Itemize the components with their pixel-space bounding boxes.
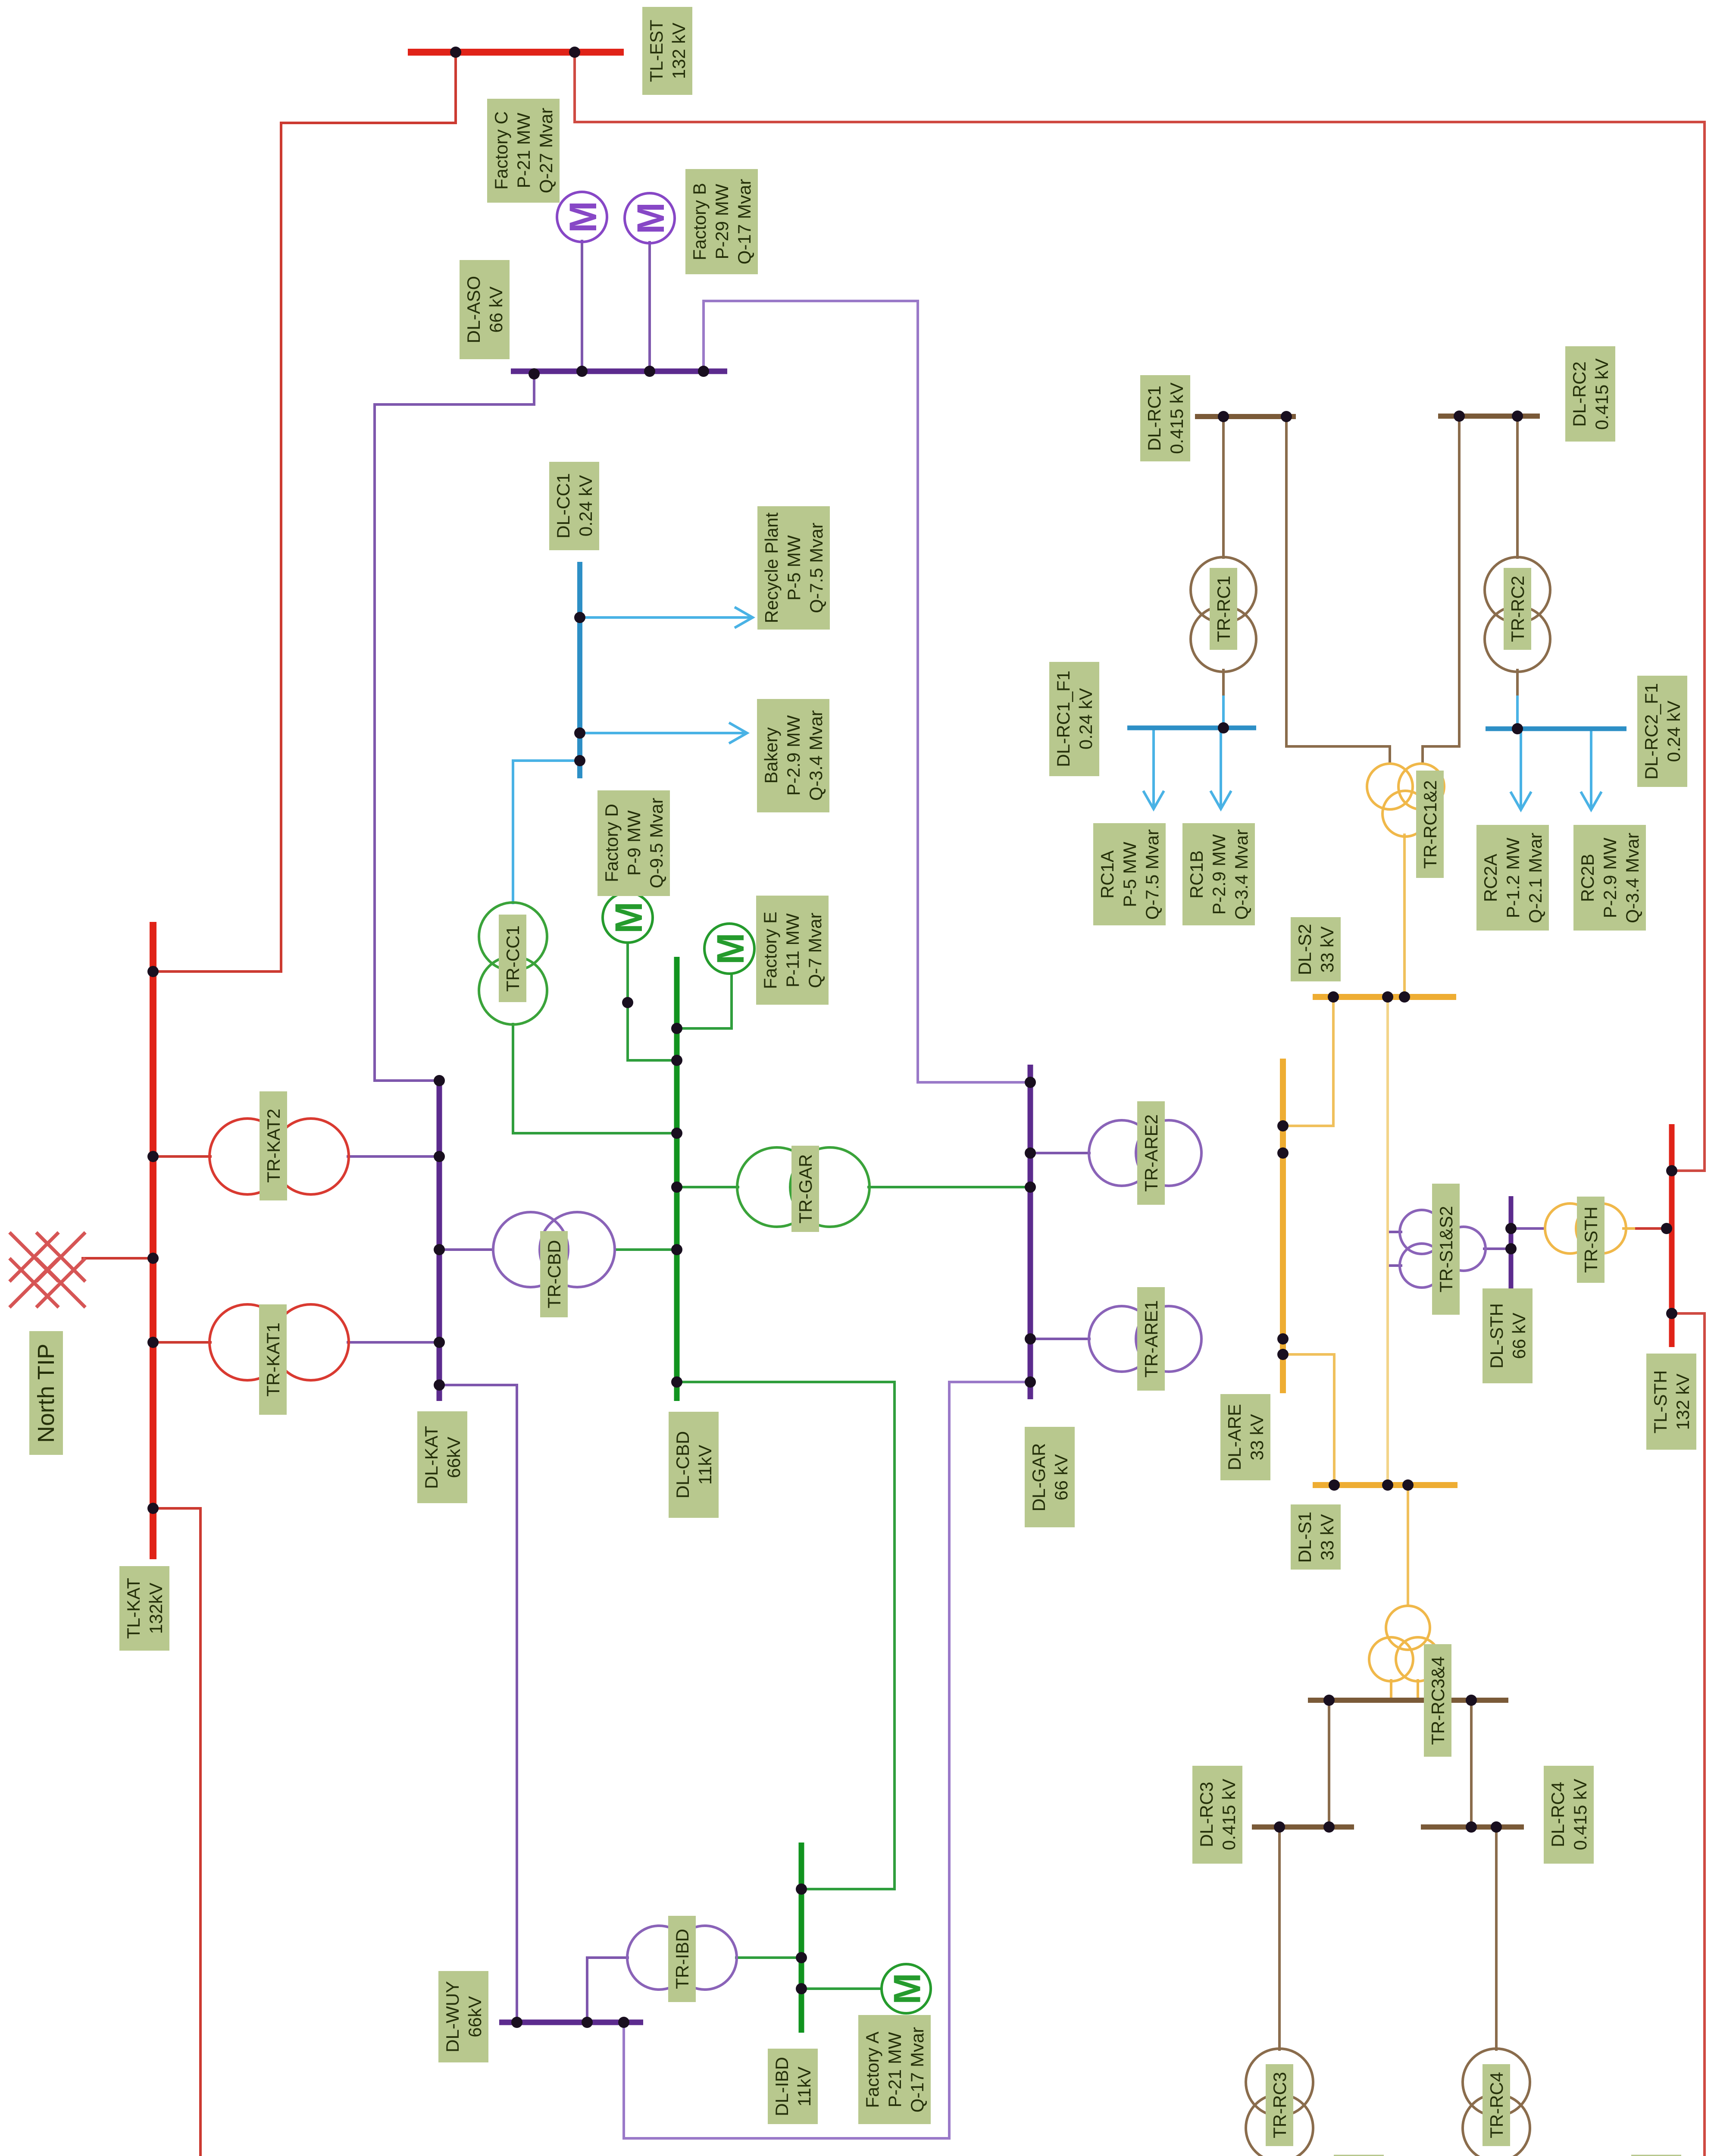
transformer TR-ARE2 — [1089, 1120, 1201, 1186]
label RC1A — [1093, 823, 1166, 925]
wire TR-STH circles stub — [1623, 1227, 1634, 1230]
wire motor Factory B stem — [648, 242, 651, 371]
transformer TR-GAR — [737, 1147, 870, 1227]
label DL-CBD — [669, 1412, 719, 1518]
label DL-RC3_F1 — [1334, 2155, 1384, 2156]
motor Factory C — [557, 192, 607, 242]
svg-text:TR-RC1&2: TR-RC1&2 — [1420, 780, 1440, 868]
wire TR-RC2 LV stub — [1516, 672, 1519, 729]
svg-text:TR-IBD: TR-IBD — [672, 1929, 692, 1989]
svg-text:M: M — [629, 202, 672, 234]
wire TR-KAT2 HV stub — [153, 1155, 210, 1158]
svg-text:TR-RC3&4: TR-RC3&4 — [1428, 1656, 1448, 1745]
wire TR-RC1 LV brown stub — [1222, 670, 1225, 694]
transformer TR-CBD — [493, 1212, 615, 1287]
transformer TR-IBD — [627, 1926, 737, 1990]
wire TR-GAR stub DL-CBD side — [677, 1186, 738, 1188]
svg-text:M: M — [607, 902, 650, 934]
wire TR-RC1 HV stub — [1222, 417, 1225, 558]
junction dots TL-KAT — [147, 966, 159, 1514]
wire TR-RC3&4 to RC4 feeder — [1470, 1700, 1473, 1827]
external grid North TIP — [9, 1232, 85, 1307]
wire motor Factory D stem — [628, 943, 677, 1060]
bus DL-RC4 0.415 kV — [1421, 1824, 1524, 1830]
motor Factory A — [882, 1964, 931, 2013]
junction dots DL-CC1 — [574, 612, 585, 766]
wire DL-KAT to DL-WUY 66kV line — [439, 1385, 517, 2022]
svg-text:Factory DP-9 MWQ-9.5 Mvar: Factory DP-9 MWQ-9.5 Mvar — [601, 798, 666, 888]
motor Factory E — [704, 924, 754, 974]
transformer TR-STH — [1545, 1203, 1626, 1253]
svg-text:TR-RC4: TR-RC4 — [1486, 2072, 1507, 2138]
label TR-S1&S2 — [1432, 1184, 1460, 1315]
wire DL-ARE to DL-S1 link — [1283, 1354, 1334, 1485]
label Factory A — [858, 2015, 931, 2124]
label TR-RC1&2 — [1416, 771, 1444, 878]
label TL-KAT — [119, 1566, 169, 1651]
label Factory C — [487, 99, 560, 203]
load arrow RC1B load — [1210, 728, 1231, 809]
label North TIP — [29, 1331, 63, 1455]
bus DL-RC1 0.415 kV — [1195, 414, 1296, 419]
motor Factory B — [625, 193, 675, 243]
transformer TR-RC1 — [1191, 557, 1256, 672]
transformer TR-RC3 — [1246, 2049, 1313, 2156]
label Bakery — [757, 699, 829, 812]
junction dots DL-KAT — [434, 1075, 445, 1391]
junction dots DL-IBD — [796, 1883, 807, 1994]
bus DL-ARE 33 kV — [1280, 1059, 1286, 1393]
wire TR-CBD HV stub — [439, 1248, 493, 1251]
label TR-RC3&4 — [1424, 1644, 1451, 1757]
label DL-S2 — [1291, 917, 1341, 981]
wire TR-CBD LV stub — [615, 1248, 677, 1251]
svg-text:TR-CBD: TR-CBD — [544, 1240, 564, 1309]
label TR-GAR — [791, 1146, 819, 1232]
transformer TR-KAT2 — [210, 1119, 349, 1194]
label RC2B — [1573, 825, 1646, 931]
label DL-RC2 — [1565, 346, 1615, 442]
junction dots DL-STH — [1505, 1223, 1517, 1254]
junction dots DL-RC4 — [1466, 1821, 1502, 1833]
svg-text:North TIP: North TIP — [33, 1344, 59, 1443]
wire TR-RC3&4 LV stub right — [1417, 1680, 1419, 1700]
wire TR-KAT1 LV stub — [348, 1341, 439, 1344]
transformer TR-RC4 — [1463, 2049, 1530, 2156]
bus TL-EST 132 kV — [408, 49, 624, 56]
transformer TR-S1&S2 — [1400, 1210, 1486, 1288]
svg-text:TR-ARE2: TR-ARE2 — [1141, 1114, 1161, 1192]
wire DL-RC2 to TR-RC1&2 line — [1423, 416, 1459, 764]
wire TR-IBD LV stub — [736, 1956, 801, 1959]
label DL-S1 — [1291, 1504, 1341, 1570]
label DL-ARE — [1220, 1394, 1270, 1480]
junction dots DL-ARE — [1277, 1120, 1289, 1360]
label DL-KAT — [417, 1411, 467, 1503]
wire motor Factory E stem — [677, 974, 732, 1028]
load arrow Bakery load — [580, 723, 747, 743]
wire TR-STH LV stub — [1511, 1227, 1545, 1230]
bus RC3-RC4 feeder bus — [1308, 1698, 1508, 1703]
label TR-KAT2 — [260, 1091, 287, 1200]
transformer TR-ARE1 — [1089, 1306, 1201, 1372]
label Factory D — [597, 790, 670, 896]
label DL-RC2_F1 — [1637, 676, 1687, 787]
label Factory E — [756, 896, 829, 1005]
bus DL-RC1_F1 0.24 kV — [1127, 726, 1256, 730]
label DL-RC4 — [1544, 1766, 1594, 1864]
label TR-RC4 — [1483, 2064, 1510, 2146]
label TR-STH — [1577, 1197, 1605, 1283]
wire TR-S1S2 LV stub lower — [1388, 1264, 1401, 1267]
wire TR-KAT1 HV stub — [153, 1341, 210, 1344]
wire TR-RC1&2 MV stub — [1403, 835, 1406, 997]
wire TR-ARE1 HV stub — [1030, 1338, 1089, 1340]
label TR-IBD — [668, 1916, 696, 2002]
wire TR-RC4 HV stub — [1495, 1827, 1498, 2049]
label DL-RC3 — [1192, 1766, 1242, 1864]
label DL-RC1 — [1140, 375, 1190, 461]
transformer TR-CC1 — [479, 903, 547, 1025]
svg-text:TR-ARE1: TR-ARE1 — [1141, 1300, 1161, 1378]
junction dots DL-RC2 — [1454, 411, 1523, 422]
svg-text:M: M — [709, 933, 752, 965]
label TR-ARE2 — [1137, 1101, 1165, 1205]
bus DL-STH 66 kV — [1509, 1196, 1514, 1290]
bus DL-GAR 66 kV — [1028, 1065, 1033, 1399]
load arrow RC1A load — [1143, 728, 1164, 809]
label DL-CC1 — [549, 462, 599, 550]
wire DL-GAR to DL-WUY 66kV ring line — [624, 1382, 1030, 2138]
label RC2A — [1476, 825, 1549, 931]
wire DL-ASO to DL-GAR 66kV line — [704, 301, 1030, 1082]
junction dots RC3-RC4 feeder — [1323, 1695, 1477, 1706]
load arrow RC2B load — [1581, 729, 1601, 810]
label TR-RC3 — [1266, 2064, 1293, 2146]
wire TL-EST to TL-STH ring line — [575, 52, 1705, 1171]
junction dots DL-WUY — [511, 2017, 629, 2028]
label RC1B — [1182, 823, 1255, 925]
transformer TR-RC3&4 — [1369, 1606, 1440, 1681]
wire TR-RC3&4 MV stub — [1407, 1485, 1409, 1606]
junction dots DL-RC3 — [1274, 1821, 1335, 1833]
svg-text:Factory CP-21 MWQ-27 Mvar: Factory CP-21 MWQ-27 Mvar — [491, 108, 556, 193]
junction dots DL-RC1 — [1218, 411, 1292, 422]
label DL-IBD — [768, 2049, 818, 2124]
label DL-GAR — [1025, 1427, 1075, 1527]
wire TR-STH HV stub — [1624, 1227, 1672, 1230]
svg-text:Factory AP-21 MWQ-17 Mvar: Factory AP-21 MWQ-17 Mvar — [862, 2027, 927, 2112]
wire TR-RC3&4 LV stub left — [1390, 1680, 1392, 1700]
label TR-CC1 — [499, 915, 526, 1002]
svg-text:TR-STH: TR-STH — [1581, 1206, 1601, 1273]
wire TR-RC3&4 to RC3 feeder — [1328, 1700, 1330, 1827]
svg-text:TR-RC1: TR-RC1 — [1214, 576, 1234, 642]
label TR-CBD — [540, 1231, 568, 1317]
wire TR-RC3 HV stub — [1278, 1827, 1281, 2049]
wire TR-S1S2 HV stub — [1484, 1247, 1511, 1250]
transformer TR-RC1&2 — [1367, 764, 1444, 837]
svg-text:M: M — [886, 1973, 929, 2004]
wire TR-IBD HV stub — [587, 1958, 628, 2022]
svg-text:TR-S1&S2: TR-S1&S2 — [1436, 1206, 1456, 1293]
label TL-STH — [1646, 1354, 1696, 1450]
label TR-RC2 — [1504, 568, 1531, 650]
label DL-ASO — [460, 260, 510, 359]
wire TR-CC1 LV link — [513, 1024, 677, 1133]
bus DL-S2 33 kV — [1313, 994, 1456, 1000]
label TR-RC1 — [1210, 568, 1237, 650]
wire TR-S1S2 LV stub upper — [1388, 1231, 1401, 1233]
wire TL-KAT to TL-WST 132kV line — [153, 1508, 723, 2156]
label DL-STH — [1483, 1288, 1533, 1383]
wire DL-CBD to DL-IBD 11kV line — [677, 1382, 895, 1889]
bus DL-ASO 66 kV — [511, 369, 727, 374]
svg-text:TR-RC3: TR-RC3 — [1270, 2072, 1290, 2138]
junction dots DL-GAR — [1025, 1077, 1036, 1388]
wire TR-RC2 HV stub — [1516, 416, 1519, 558]
junction dots DL-ASO — [529, 366, 709, 379]
svg-text:M: M — [561, 201, 604, 233]
junction dots DL-CBD — [671, 1023, 682, 1388]
wire TR-GAR stub DL-GAR side — [869, 1186, 1030, 1188]
load arrow RC2A load — [1511, 729, 1531, 810]
wire DL-S2 to DL-ARE link — [1283, 997, 1333, 1126]
junction dots DL-S2 — [1328, 991, 1410, 1003]
wire TR-RC1 LV stub — [1222, 672, 1225, 728]
transformer TR-RC2 — [1485, 557, 1550, 672]
junction dots TL-STH — [1661, 1165, 1677, 1319]
motor Factory D — [603, 893, 653, 943]
bus DL-RC2_F1 0.24 kV — [1486, 727, 1626, 731]
junction dots Factory D stem — [622, 997, 633, 1008]
wire North TIP grid stub — [83, 1257, 153, 1260]
label DL-RC1_F1 — [1049, 662, 1099, 776]
label Factory B — [685, 169, 758, 274]
label TR-ARE1 — [1137, 1287, 1165, 1391]
bus DL-CC1 0.24 kV — [577, 562, 582, 778]
label TL-EST — [642, 7, 692, 95]
junction dots TL-EST — [450, 47, 580, 58]
bus DL-KAT 66 kV — [437, 1078, 442, 1401]
load arrow Recycle Plant load — [580, 607, 753, 628]
bus TL-STH 132 kV — [1669, 1124, 1675, 1347]
wire motor Factory A stem — [801, 1987, 882, 1990]
svg-text:Factory BP-29 MWQ-17 Mvar: Factory BP-29 MWQ-17 Mvar — [689, 179, 754, 264]
label TR-KAT1 — [259, 1304, 287, 1415]
label Recycle Plant — [757, 506, 830, 630]
svg-text:TR-GAR: TR-GAR — [795, 1154, 816, 1224]
transformer TR-KAT1 — [210, 1304, 349, 1380]
wire DL-RC1 to TR-RC1&2 line — [1286, 417, 1390, 764]
bus DL-WUY 66 kV — [499, 2020, 643, 2025]
bus DL-IBD 11 kV — [799, 1843, 804, 2033]
bus DL-CBD 11 kV — [674, 957, 680, 1401]
wire TL-WST to TL-STH ring line — [1067, 1313, 1705, 2156]
bus DL-RC3 0.415 kV — [1252, 1824, 1354, 1830]
wire TL-EST to TL-KAT 132kV line — [153, 52, 456, 971]
wire TR-RC2 LV brown stub — [1516, 670, 1519, 694]
wire motor Factory C stem — [581, 241, 583, 371]
svg-text:TR-CC1: TR-CC1 — [503, 925, 523, 992]
junction dots DL-RC1_F1 — [1218, 722, 1229, 733]
wire TR-KAT2 LV stub — [348, 1155, 439, 1158]
svg-text:TR-KAT1: TR-KAT1 — [263, 1322, 283, 1397]
svg-text:TR-KAT2: TR-KAT2 — [263, 1109, 284, 1183]
wire TR-ARE2 HV stub — [1030, 1152, 1089, 1154]
label DL-RC4_F1 — [1631, 2155, 1681, 2156]
label DL-WUY — [438, 1971, 488, 2062]
bus DL-RC2 0.415 kV — [1438, 414, 1540, 419]
svg-text:TR-RC2: TR-RC2 — [1508, 576, 1528, 642]
svg-text:Factory EP-11 MWQ-7 Mvar: Factory EP-11 MWQ-7 Mvar — [760, 912, 825, 989]
junction dots DL-RC2_F1 — [1512, 723, 1523, 734]
bus TL-KAT 132 kV — [150, 922, 156, 1559]
wire DL-S2 to DL-S1 line — [1386, 997, 1389, 1485]
wire DL-ASO to DL-KAT 66kV line — [375, 371, 534, 1081]
wire TR-CC1 HV link — [513, 761, 580, 903]
junction dots DL-S1 — [1329, 1479, 1414, 1491]
bus DL-S1 33 kV — [1313, 1482, 1458, 1488]
